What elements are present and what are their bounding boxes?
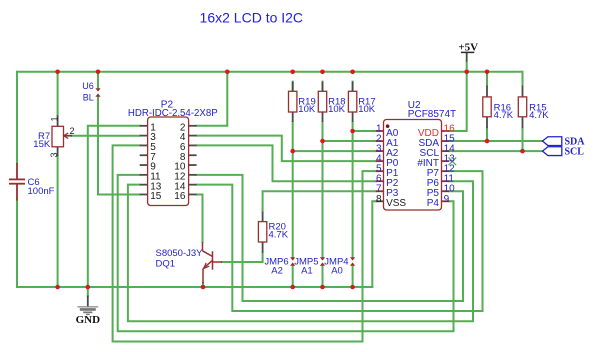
- svg-text:A0: A0: [331, 265, 343, 276]
- svg-text:HDR-IDC-2.54-2X8P: HDR-IDC-2.54-2X8P: [128, 108, 218, 119]
- svg-text:DQ1: DQ1: [156, 258, 176, 269]
- svg-text:BL: BL: [83, 93, 94, 103]
- svg-text:2: 2: [70, 126, 75, 136]
- svg-text:PCF8574T: PCF8574T: [408, 109, 456, 120]
- svg-text:A1: A1: [301, 265, 313, 276]
- svg-text:10K: 10K: [298, 104, 316, 115]
- svg-text:A2: A2: [271, 265, 283, 276]
- svg-text:3: 3: [49, 152, 59, 157]
- svg-text:16x2 LCD to I2C: 16x2 LCD to I2C: [200, 9, 304, 25]
- svg-text:+5V: +5V: [458, 41, 478, 53]
- svg-text:10K: 10K: [358, 104, 376, 115]
- svg-text:8: 8: [376, 194, 382, 205]
- svg-text:P4: P4: [427, 198, 440, 209]
- svg-text:16: 16: [174, 191, 186, 202]
- svg-text:SCL: SCL: [565, 146, 585, 157]
- svg-text:VSS: VSS: [386, 198, 406, 209]
- svg-text:4.7K: 4.7K: [529, 110, 549, 121]
- svg-text:100nF: 100nF: [28, 186, 55, 197]
- svg-text:GND: GND: [76, 314, 101, 326]
- svg-text:9: 9: [444, 194, 450, 205]
- svg-text:4.7K: 4.7K: [269, 229, 289, 240]
- svg-text:U6: U6: [82, 81, 94, 91]
- svg-text:15: 15: [150, 191, 162, 202]
- svg-text:1: 1: [50, 116, 60, 121]
- svg-text:4.7K: 4.7K: [494, 110, 514, 121]
- svg-text:15K: 15K: [33, 139, 51, 150]
- svg-text:10K: 10K: [328, 104, 346, 115]
